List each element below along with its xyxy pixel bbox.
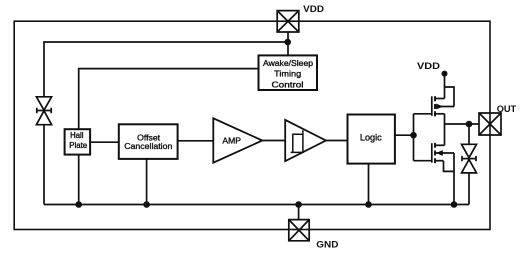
wire AMP output to Schmitt trigger — [262, 140, 285, 142]
junction node NMOS source ground — [451, 201, 458, 208]
zener diode D1 (ESD, VDD to GND) — [36, 97, 51, 125]
junction node below VDD pad — [284, 39, 291, 46]
svg-text:VDD: VDD — [303, 4, 324, 14]
wire zener D1 bottom down to ground rail — [43, 125, 45, 205]
wire Offset Cancellation bottom to ground rail — [146, 159, 148, 205]
svg-text:Hall: Hall — [70, 131, 84, 140]
ground rail — [44, 204, 469, 206]
svg-text:AMP: AMP — [222, 135, 241, 145]
OUT pad — [479, 113, 501, 135]
wire VDD pad stub down to Awake/Sleep box — [287, 32, 289, 55]
wire VDD rail to left side down to zener D1 — [44, 42, 288, 97]
Offset Cancellation block — [119, 124, 178, 159]
wire Offset Cancellation to AMP input — [178, 140, 214, 142]
wire ground rail stub to GND pad — [298, 205, 300, 220]
junction node output zener tap — [466, 121, 473, 128]
wire Schmitt trigger to Logic — [326, 140, 348, 142]
svg-text:VDD: VDD — [417, 61, 440, 71]
Hall Plate block — [65, 129, 91, 154]
wire zener D2 bottom to ground rail — [468, 173, 470, 205]
junction node GND pad — [295, 201, 302, 208]
transistor Q1 PMOS — [414, 76, 455, 124]
svg-text:Awake/Sleep: Awake/Sleep — [263, 58, 313, 68]
op-amp AMP triangle — [213, 118, 262, 162]
wire Logic bottom to ground rail — [368, 164, 370, 205]
wire output node down to zener D2 — [468, 124, 470, 144]
Schmitt trigger triangle — [285, 120, 326, 161]
Awake/Sleep Timing Control block — [259, 55, 318, 90]
VDD terminal dot — [442, 71, 448, 77]
GND pad — [289, 220, 309, 241]
svg-text:Logic: Logic — [360, 132, 382, 142]
svg-text:Cancellation: Cancellation — [124, 141, 172, 151]
svg-text:Timing: Timing — [274, 69, 301, 79]
junction node Hall ground — [75, 201, 82, 208]
transistor Q2 NMOS — [414, 124, 455, 205]
junction node Logic ground — [365, 201, 372, 208]
wire output node to OUT pad — [445, 123, 480, 125]
wire gate bus vertical — [413, 114, 415, 161]
Schmitt hysteresis symbol — [291, 130, 303, 152]
wire Hall Plate bottom to ground rail — [78, 155, 80, 205]
VDD pad — [277, 11, 299, 32]
svg-text:OUT: OUT — [497, 104, 517, 114]
zener diode D2 (ESD, OUT to GND) — [462, 144, 477, 173]
Logic block — [348, 115, 395, 164]
IC boundary border — [14, 21, 490, 229]
svg-text:Plate: Plate — [69, 141, 87, 150]
svg-text:Control: Control — [272, 79, 304, 89]
wire Hall Plate to Offset Cancellation — [90, 141, 119, 143]
wire Logic output to gate bus — [395, 134, 414, 136]
svg-text:GND: GND — [316, 240, 338, 250]
junction node gate bus — [410, 132, 417, 139]
wire Awake/Sleep to Hall Plate top — [79, 69, 259, 130]
junction node Offset ground — [143, 201, 150, 208]
